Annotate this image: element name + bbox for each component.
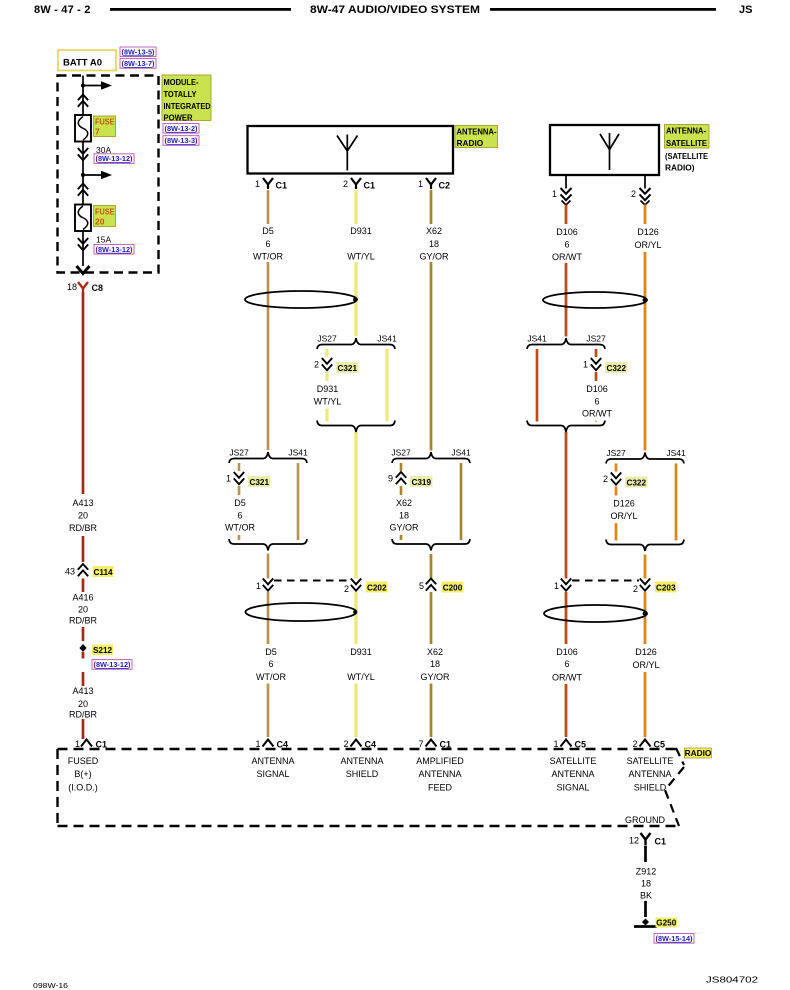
svg-text:FUSE: FUSE xyxy=(95,117,115,127)
svg-text:C202: C202 xyxy=(367,583,387,592)
svg-text:JS27: JS27 xyxy=(317,334,337,344)
svg-text:1: 1 xyxy=(256,581,261,591)
svg-text:C4: C4 xyxy=(365,740,377,750)
svg-text:(8W-13-12): (8W-13-12) xyxy=(96,245,133,254)
svg-text:(8W-13-12): (8W-13-12) xyxy=(96,154,133,163)
svg-text:D5: D5 xyxy=(262,226,274,236)
svg-text:GY/OR: GY/OR xyxy=(389,523,419,533)
svg-text:D5: D5 xyxy=(265,647,277,657)
svg-text:1: 1 xyxy=(553,739,558,749)
svg-text:FEED: FEED xyxy=(428,782,453,792)
svg-text:FUSED: FUSED xyxy=(68,756,99,766)
svg-text:ANTENNA: ANTENNA xyxy=(418,769,461,779)
svg-text:SHIELD: SHIELD xyxy=(634,782,667,792)
svg-text:8W - 47 - 2: 8W - 47 - 2 xyxy=(34,4,91,16)
svg-text:6: 6 xyxy=(237,510,242,520)
svg-text:WT/OR: WT/OR xyxy=(256,672,286,682)
svg-text:WT/YL: WT/YL xyxy=(347,252,375,262)
svg-text:OR/YL: OR/YL xyxy=(610,511,637,521)
svg-text:C5: C5 xyxy=(575,740,587,750)
svg-text:(8W-15-14): (8W-15-14) xyxy=(656,934,693,943)
svg-text:C321: C321 xyxy=(249,478,269,487)
svg-text:(SATELLITE: (SATELLITE xyxy=(665,151,708,161)
svg-text:C114: C114 xyxy=(93,568,113,577)
svg-text:X62: X62 xyxy=(427,647,443,657)
svg-text:D931: D931 xyxy=(350,647,372,657)
svg-text:(8W-13-3): (8W-13-3) xyxy=(165,136,198,145)
svg-text:JS27: JS27 xyxy=(229,448,249,458)
svg-text:43: 43 xyxy=(65,567,75,577)
svg-text:C4: C4 xyxy=(277,740,289,750)
svg-text:JS804702: JS804702 xyxy=(706,976,758,985)
svg-text:SIGNAL: SIGNAL xyxy=(556,782,589,792)
svg-text:SATELLITE: SATELLITE xyxy=(550,756,597,766)
svg-text:D106: D106 xyxy=(556,647,578,657)
svg-text:BK: BK xyxy=(640,891,652,901)
svg-text:1: 1 xyxy=(255,179,260,189)
svg-text:C1: C1 xyxy=(364,181,376,191)
svg-text:(8W-13-7): (8W-13-7) xyxy=(122,59,155,68)
svg-text:OR/YL: OR/YL xyxy=(632,660,659,670)
svg-text:S212: S212 xyxy=(93,646,113,655)
svg-text:WT/OR: WT/OR xyxy=(253,252,283,262)
svg-text:JS: JS xyxy=(739,4,752,16)
svg-text:D126: D126 xyxy=(635,647,657,657)
svg-text:1: 1 xyxy=(418,179,423,189)
svg-text:RADIO: RADIO xyxy=(685,748,712,758)
svg-text:C8: C8 xyxy=(92,283,104,293)
svg-text:1: 1 xyxy=(255,739,260,749)
svg-text:MODULE-: MODULE- xyxy=(164,77,199,87)
svg-text:ANTENNA-: ANTENNA- xyxy=(457,127,497,137)
svg-text:JS27: JS27 xyxy=(391,448,411,458)
svg-text:2: 2 xyxy=(314,360,319,370)
svg-text:A413: A413 xyxy=(72,686,93,696)
svg-text:1: 1 xyxy=(583,360,588,370)
svg-text:1: 1 xyxy=(226,474,231,484)
svg-text:X62: X62 xyxy=(396,498,412,508)
svg-text:20: 20 xyxy=(78,699,88,709)
svg-text:18: 18 xyxy=(430,659,440,669)
svg-text:ANTENNA: ANTENNA xyxy=(551,769,594,779)
svg-text:1: 1 xyxy=(552,189,557,199)
svg-text:G250: G250 xyxy=(656,918,676,927)
svg-text:GY/OR: GY/OR xyxy=(419,252,449,262)
svg-text:X62: X62 xyxy=(426,226,442,236)
svg-text:RD/BR: RD/BR xyxy=(69,523,98,533)
svg-text:D106: D106 xyxy=(556,227,578,237)
svg-text:9: 9 xyxy=(388,474,393,484)
svg-text:JS41: JS41 xyxy=(527,334,547,344)
svg-text:6: 6 xyxy=(564,659,569,669)
svg-text:D931: D931 xyxy=(350,226,372,236)
svg-text:6: 6 xyxy=(268,659,273,669)
svg-text:RADIO: RADIO xyxy=(457,138,484,148)
svg-text:2: 2 xyxy=(343,179,348,189)
svg-text:20: 20 xyxy=(78,511,88,521)
svg-text:20: 20 xyxy=(95,217,105,227)
svg-text:AMPLIFIED: AMPLIFIED xyxy=(416,756,464,766)
svg-text:C2: C2 xyxy=(439,181,451,191)
svg-text:2: 2 xyxy=(631,189,636,199)
svg-text:15A: 15A xyxy=(96,235,111,245)
svg-text:SIGNAL: SIGNAL xyxy=(256,769,289,779)
svg-text:JS41: JS41 xyxy=(451,448,471,458)
svg-text:JS41: JS41 xyxy=(666,448,686,458)
svg-text:B(+): B(+) xyxy=(74,769,91,779)
svg-text:C322: C322 xyxy=(606,364,626,373)
svg-text:12: 12 xyxy=(629,836,639,846)
svg-text:GY/OR: GY/OR xyxy=(420,672,450,682)
svg-text:D126: D126 xyxy=(637,227,659,237)
svg-text:WT/YL: WT/YL xyxy=(314,396,342,406)
svg-text:FUSE: FUSE xyxy=(95,207,115,217)
svg-text:C322: C322 xyxy=(626,478,646,487)
svg-text:SATELLITE: SATELLITE xyxy=(627,756,674,766)
svg-text:(I.O.D.): (I.O.D.) xyxy=(68,782,98,792)
svg-text:JS27: JS27 xyxy=(586,334,606,344)
svg-text:WT/OR: WT/OR xyxy=(225,523,255,533)
svg-text:18: 18 xyxy=(641,879,651,889)
svg-text:(8W-13-2): (8W-13-2) xyxy=(165,124,198,133)
svg-text:18: 18 xyxy=(399,510,409,520)
svg-text:6: 6 xyxy=(564,240,569,250)
svg-text:7: 7 xyxy=(95,127,100,137)
svg-text:JS41: JS41 xyxy=(377,334,397,344)
svg-text:POWER: POWER xyxy=(164,113,194,123)
svg-text:098W-16: 098W-16 xyxy=(33,981,68,990)
svg-text:2: 2 xyxy=(633,584,638,594)
svg-text:WT/YL: WT/YL xyxy=(347,672,375,682)
svg-text:6: 6 xyxy=(265,239,270,249)
svg-text:D5: D5 xyxy=(234,498,246,508)
svg-text:7: 7 xyxy=(418,739,423,749)
svg-text:GROUND: GROUND xyxy=(625,815,665,825)
svg-text:2: 2 xyxy=(343,739,348,749)
svg-text:C5: C5 xyxy=(654,740,666,750)
svg-text:1: 1 xyxy=(75,739,80,749)
svg-text:OR/YL: OR/YL xyxy=(634,240,661,250)
svg-text:A413: A413 xyxy=(72,498,93,508)
svg-text:BATT A0: BATT A0 xyxy=(63,58,102,68)
svg-text:INTEGRATED: INTEGRATED xyxy=(164,101,211,111)
svg-text:5: 5 xyxy=(419,581,424,591)
svg-text:JS27: JS27 xyxy=(606,448,626,458)
svg-text:18: 18 xyxy=(67,282,77,292)
svg-text:JS41: JS41 xyxy=(288,448,308,458)
svg-text:C200: C200 xyxy=(443,583,463,592)
svg-text:20: 20 xyxy=(78,605,88,615)
svg-text:ANTENNA: ANTENNA xyxy=(340,756,383,766)
svg-text:C321: C321 xyxy=(337,364,357,373)
svg-text:OR/WT: OR/WT xyxy=(582,409,612,419)
svg-text:C1: C1 xyxy=(655,837,667,847)
svg-text:Z912: Z912 xyxy=(636,867,657,877)
svg-text:(8W-13-5): (8W-13-5) xyxy=(122,47,155,56)
svg-text:ANTENNA: ANTENNA xyxy=(251,756,294,766)
svg-text:SHIELD: SHIELD xyxy=(346,769,379,779)
svg-text:C203: C203 xyxy=(656,583,676,592)
svg-text:A416: A416 xyxy=(72,593,93,603)
svg-text:C1: C1 xyxy=(440,740,452,750)
svg-text:SATELLITE: SATELLITE xyxy=(666,138,707,148)
svg-text:RD/BR: RD/BR xyxy=(69,616,98,626)
svg-text:18: 18 xyxy=(429,239,439,249)
svg-text:C319: C319 xyxy=(411,478,431,487)
svg-text:OR/WT: OR/WT xyxy=(552,252,582,262)
svg-text:8W-47 AUDIO/VIDEO SYSTEM: 8W-47 AUDIO/VIDEO SYSTEM xyxy=(310,4,480,16)
svg-text:ANTENNA-: ANTENNA- xyxy=(666,126,706,136)
svg-text:C1: C1 xyxy=(276,181,288,191)
svg-text:2: 2 xyxy=(632,739,637,749)
svg-text:6: 6 xyxy=(594,396,599,406)
svg-text:OR/WT: OR/WT xyxy=(552,673,582,683)
svg-text:TOTALLY: TOTALLY xyxy=(164,89,197,99)
svg-text:D931: D931 xyxy=(317,384,339,394)
svg-text:(8W-13-12): (8W-13-12) xyxy=(94,660,131,669)
svg-text:2: 2 xyxy=(344,584,349,594)
svg-text:D126: D126 xyxy=(613,499,635,509)
svg-text:D106: D106 xyxy=(586,384,608,394)
svg-text:ANTENNA: ANTENNA xyxy=(628,769,671,779)
svg-text:2: 2 xyxy=(603,474,608,484)
svg-text:RD/BR: RD/BR xyxy=(69,710,98,720)
svg-text:RADIO): RADIO) xyxy=(665,163,695,173)
svg-text:1: 1 xyxy=(554,581,559,591)
